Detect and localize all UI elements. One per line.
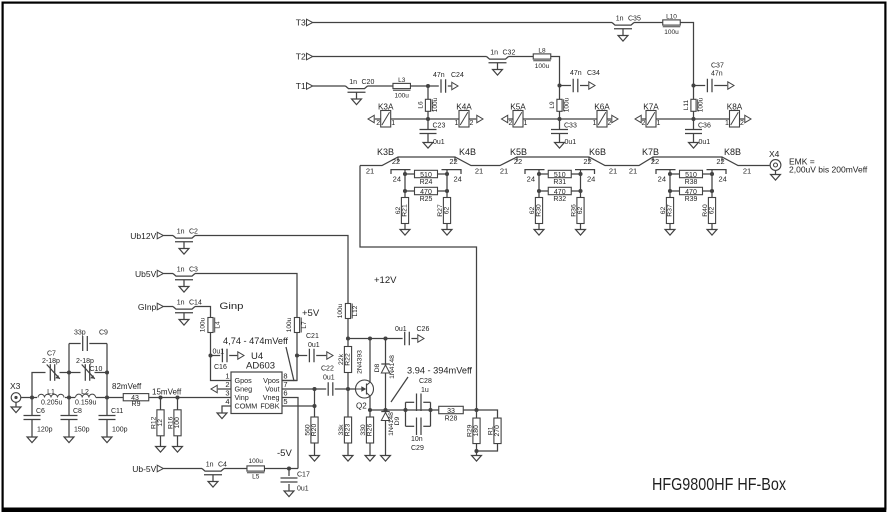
svg-text:C6: C6 — [36, 408, 45, 415]
svg-text:C23: C23 — [433, 123, 446, 130]
svg-text:21: 21 — [500, 166, 508, 175]
svg-text:C4: C4 — [218, 462, 227, 469]
svg-text:100u: 100u — [248, 458, 263, 465]
svg-text:C33: C33 — [564, 123, 577, 130]
svg-text:1: 1 — [391, 120, 395, 127]
svg-text:0u1: 0u1 — [565, 139, 577, 146]
svg-text:C24: C24 — [451, 72, 464, 79]
svg-text:C16: C16 — [214, 364, 227, 371]
svg-text:AD603: AD603 — [246, 361, 275, 372]
svg-text:L2: L2 — [81, 389, 89, 396]
svg-text:+12V: +12V — [374, 275, 397, 286]
svg-text:C7: C7 — [47, 351, 56, 358]
svg-text:1: 1 — [524, 120, 528, 127]
svg-text:R25: R25 — [420, 196, 433, 203]
svg-text:C21: C21 — [306, 333, 319, 340]
svg-text:L7: L7 — [301, 321, 308, 329]
svg-text:22: 22 — [651, 157, 659, 166]
svg-text:C22: C22 — [321, 366, 334, 373]
svg-text:0u1: 0u1 — [308, 342, 320, 349]
svg-text:C3: C3 — [189, 267, 198, 274]
svg-text:L12: L12 — [352, 305, 359, 316]
svg-text:150p: 150p — [74, 427, 90, 434]
svg-text:21: 21 — [743, 166, 751, 175]
svg-text:0u1: 0u1 — [323, 375, 335, 382]
svg-text:2N4393: 2N4393 — [357, 350, 364, 374]
svg-text:4,74 - 474mVeff: 4,74 - 474mVeff — [223, 336, 288, 346]
svg-text:1N4148: 1N4148 — [389, 355, 396, 379]
svg-text:1: 1 — [725, 120, 729, 127]
svg-text:C20: C20 — [362, 79, 375, 86]
svg-text:62: 62 — [708, 207, 715, 215]
svg-text:0.205u: 0.205u — [41, 400, 63, 407]
svg-text:R9: R9 — [132, 401, 141, 408]
svg-text:Ub5V: Ub5V — [135, 269, 157, 279]
svg-text:R26: R26 — [366, 424, 373, 437]
svg-text:47n: 47n — [711, 71, 723, 78]
svg-text:1: 1 — [455, 120, 459, 127]
svg-text:K3A: K3A — [378, 102, 394, 111]
svg-text:K8B: K8B — [724, 147, 741, 157]
svg-text:24: 24 — [587, 174, 595, 183]
svg-text:Q2: Q2 — [356, 402, 367, 411]
svg-text:1u: 1u — [421, 387, 429, 394]
svg-text:22: 22 — [716, 157, 724, 166]
svg-text:1n: 1n — [490, 50, 498, 57]
svg-text:62: 62 — [577, 207, 584, 215]
svg-text:1n: 1n — [177, 229, 185, 236]
svg-text:22: 22 — [449, 157, 457, 166]
svg-text:GInp: GInp — [138, 302, 157, 312]
svg-text:24: 24 — [527, 174, 535, 183]
svg-text:62: 62 — [443, 207, 450, 215]
svg-text:2: 2 — [470, 120, 474, 127]
svg-text:10n: 10n — [411, 436, 423, 443]
svg-text:R31: R31 — [553, 179, 566, 186]
svg-text:C26: C26 — [417, 326, 430, 333]
svg-text:R32: R32 — [553, 196, 566, 203]
svg-text:R22: R22 — [344, 353, 351, 366]
svg-text:C28: C28 — [419, 378, 432, 385]
svg-text:270: 270 — [494, 425, 501, 437]
svg-text:2,00uV bis 200mVeff: 2,00uV bis 200mVeff — [789, 165, 868, 175]
svg-text:21: 21 — [366, 166, 374, 175]
svg-text:R28: R28 — [445, 415, 458, 422]
svg-text:2: 2 — [740, 120, 744, 127]
svg-text:C32: C32 — [503, 50, 516, 57]
svg-text:1: 1 — [593, 120, 597, 127]
svg-text:24: 24 — [719, 174, 727, 183]
svg-text:0u1: 0u1 — [395, 326, 407, 333]
svg-text:1n: 1n — [349, 79, 357, 86]
svg-text:R20: R20 — [311, 424, 318, 437]
svg-text:C9: C9 — [99, 330, 108, 337]
svg-text:100u: 100u — [698, 97, 705, 112]
svg-text:100: 100 — [174, 417, 181, 429]
svg-text:22: 22 — [514, 157, 522, 166]
svg-text:100u: 100u — [200, 317, 207, 332]
svg-text:T2: T2 — [296, 52, 306, 62]
svg-text:47n: 47n — [570, 70, 582, 77]
svg-text:K8A: K8A — [727, 102, 743, 111]
svg-text:R21: R21 — [401, 204, 408, 217]
svg-text:510: 510 — [420, 172, 432, 179]
svg-text:K7B: K7B — [642, 147, 659, 157]
svg-text:510: 510 — [554, 172, 566, 179]
svg-text:21: 21 — [609, 166, 617, 175]
svg-text:L5: L5 — [252, 474, 260, 481]
svg-text:470: 470 — [420, 189, 432, 196]
svg-text:24: 24 — [454, 174, 462, 183]
svg-text:C10: C10 — [90, 366, 103, 373]
svg-text:K6B: K6B — [589, 147, 606, 157]
svg-text:0.159u: 0.159u — [75, 400, 97, 407]
svg-text:K4B: K4B — [459, 147, 476, 157]
svg-text:0u1: 0u1 — [213, 349, 225, 356]
svg-text:K5B: K5B — [510, 147, 527, 157]
svg-text:2: 2 — [509, 120, 513, 127]
svg-text:K4A: K4A — [456, 102, 472, 111]
svg-text:L8: L8 — [538, 48, 546, 55]
svg-text:4: 4 — [225, 397, 229, 406]
svg-text:100u: 100u — [664, 29, 679, 36]
svg-text:L11: L11 — [683, 99, 690, 110]
svg-text:510: 510 — [685, 172, 697, 179]
svg-text:100p: 100p — [112, 427, 128, 434]
svg-text:21: 21 — [629, 166, 637, 175]
svg-text:C8: C8 — [73, 408, 82, 415]
svg-text:R37: R37 — [666, 204, 673, 217]
svg-text:D9: D9 — [394, 416, 401, 425]
svg-text:0u1: 0u1 — [433, 139, 445, 146]
svg-text:100u: 100u — [564, 97, 571, 112]
svg-text:22: 22 — [392, 157, 400, 166]
svg-text:R24: R24 — [420, 179, 433, 186]
svg-text:33: 33 — [447, 408, 455, 415]
svg-text:+5V: +5V — [302, 308, 320, 319]
svg-text:C35: C35 — [628, 16, 641, 23]
svg-text:R30: R30 — [535, 204, 542, 217]
svg-text:C34: C34 — [587, 70, 600, 77]
svg-text:X4: X4 — [769, 149, 780, 159]
svg-text:COMM: COMM — [235, 402, 258, 411]
svg-text:470: 470 — [685, 189, 697, 196]
svg-text:HFG9800HF HF-Box: HFG9800HF HF-Box — [652, 474, 786, 494]
svg-text:D8: D8 — [374, 363, 381, 372]
svg-text:24: 24 — [393, 174, 401, 183]
svg-text:15mVeff: 15mVeff — [152, 388, 182, 397]
svg-text:C11: C11 — [111, 408, 123, 415]
svg-text:L10: L10 — [666, 14, 677, 21]
svg-text:Ub-5V: Ub-5V — [132, 464, 156, 474]
svg-text:C14: C14 — [189, 300, 202, 307]
svg-text:100u: 100u — [535, 63, 550, 70]
svg-text:24: 24 — [658, 174, 666, 183]
svg-text:100u: 100u — [286, 317, 293, 332]
svg-text:1n: 1n — [177, 300, 185, 307]
svg-text:C2: C2 — [189, 229, 198, 236]
svg-text:L6: L6 — [418, 101, 425, 109]
svg-text:Ub12V: Ub12V — [130, 231, 156, 241]
svg-text:47n: 47n — [433, 72, 445, 79]
svg-text:1n: 1n — [616, 16, 624, 23]
svg-text:2: 2 — [608, 120, 612, 127]
svg-text:2: 2 — [642, 120, 646, 127]
svg-text:180: 180 — [473, 425, 480, 437]
svg-text:1n: 1n — [177, 267, 185, 274]
svg-text:1: 1 — [657, 120, 661, 127]
svg-text:1n: 1n — [206, 462, 214, 469]
svg-text:100u: 100u — [337, 303, 344, 318]
svg-text:100u: 100u — [394, 93, 409, 100]
svg-text:C36: C36 — [698, 123, 711, 130]
svg-text:L9: L9 — [549, 101, 556, 109]
svg-text:K6A: K6A — [594, 102, 610, 111]
svg-text:33p: 33p — [74, 330, 86, 337]
svg-text:3.94 - 394mVeff: 3.94 - 394mVeff — [407, 366, 472, 376]
svg-text:0u1: 0u1 — [699, 139, 711, 146]
svg-text:K7A: K7A — [643, 102, 659, 111]
svg-text:Ginp: Ginp — [220, 301, 244, 311]
svg-text:12: 12 — [157, 419, 164, 427]
svg-text:T3: T3 — [296, 18, 306, 28]
svg-text:K5A: K5A — [510, 102, 526, 111]
svg-text:L1: L1 — [47, 389, 55, 396]
svg-text:470: 470 — [554, 189, 566, 196]
svg-text:C17: C17 — [297, 472, 310, 479]
svg-text:21: 21 — [475, 166, 483, 175]
svg-text:2: 2 — [376, 120, 380, 127]
svg-text:R38: R38 — [685, 179, 698, 186]
svg-text:C29: C29 — [411, 445, 424, 452]
svg-text:L4: L4 — [215, 321, 222, 329]
svg-text:T1: T1 — [296, 81, 306, 91]
svg-text:R23: R23 — [344, 424, 351, 437]
svg-text:X3: X3 — [10, 381, 21, 391]
svg-text:22: 22 — [583, 157, 591, 166]
svg-text:2-18p: 2-18p — [42, 358, 60, 365]
svg-text:C37: C37 — [711, 63, 724, 70]
svg-text:R39: R39 — [685, 196, 698, 203]
svg-text:FDBK: FDBK — [260, 402, 279, 411]
svg-text:L3: L3 — [398, 77, 406, 84]
svg-text:100u: 100u — [432, 97, 439, 112]
svg-text:0u1: 0u1 — [297, 486, 309, 493]
svg-text:5: 5 — [283, 397, 287, 406]
svg-text:-5V: -5V — [277, 448, 292, 459]
svg-text:K3B: K3B — [377, 147, 394, 157]
svg-text:120p: 120p — [37, 427, 53, 434]
svg-text:82mVeff: 82mVeff — [112, 382, 142, 391]
svg-text:2-18p: 2-18p — [76, 358, 94, 365]
